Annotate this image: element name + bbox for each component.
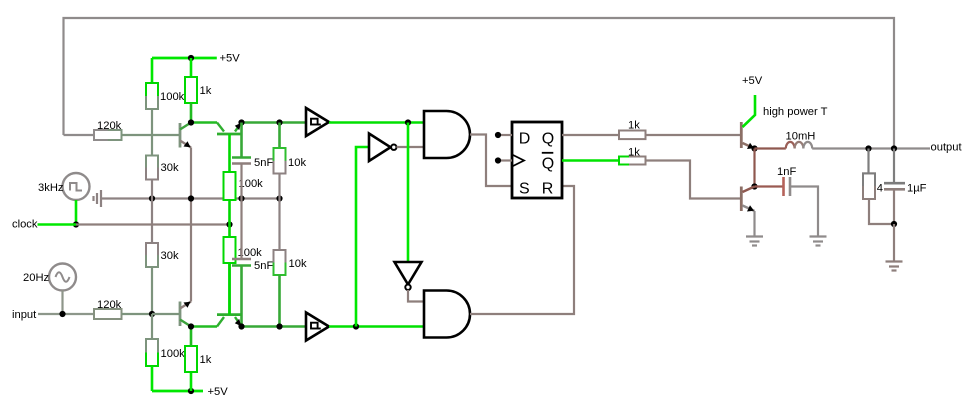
- svg-text:1k: 1k: [628, 120, 640, 132]
- AND gate U6: [424, 291, 470, 338]
- wire +5V bottom rail: [152, 390, 203, 393]
- resistor R7 100k left bottom: [146, 314, 185, 391]
- resistor R6 120k bottom: [94, 299, 152, 319]
- svg-text:5nF: 5nF: [254, 157, 273, 169]
- transistor Q2: [180, 302, 191, 327]
- resistor R12 10k lower: [274, 199, 307, 327]
- node 10k top: [276, 119, 282, 125]
- svg-text:1nF: 1nF: [777, 166, 796, 178]
- svg-text:10mH: 10mH: [786, 131, 816, 143]
- node clock: [73, 221, 79, 227]
- svg-text:20Hz: 20Hz: [23, 272, 50, 284]
- wire AND1 out to S: [470, 135, 512, 187]
- node ground row A: [149, 195, 155, 201]
- wire Q6 emitter to ground: [753, 211, 755, 236]
- node +5V top: [188, 55, 194, 61]
- node output A: [865, 145, 871, 151]
- inductor L1 10mH: [786, 131, 816, 149]
- wire collector row Q4 to schmitt2: [242, 325, 307, 328]
- node collector Q6: [751, 183, 757, 189]
- wire inverter1 out: [397, 146, 425, 148]
- ground G1: [94, 190, 102, 207]
- node ground row B: [188, 195, 194, 201]
- svg-text:1k: 1k: [628, 147, 640, 159]
- svg-text:10k: 10k: [289, 258, 307, 270]
- svg-text:R: R: [542, 180, 554, 197]
- svg-text:100k: 100k: [161, 348, 186, 360]
- wire Q out: [562, 134, 619, 136]
- svg-text:1k: 1k: [200, 354, 212, 366]
- wire clock source lead: [75, 200, 78, 225]
- wire Q5 emitter to coil: [755, 147, 786, 149]
- node 10k bottom: [276, 323, 282, 329]
- inverter U4: [395, 262, 422, 290]
- svg-text:D: D: [519, 131, 531, 148]
- wire 1nF to ground: [790, 187, 818, 237]
- node emitter Q3: [238, 119, 244, 125]
- AND gate U5: [424, 111, 470, 158]
- resistor R3 1k top: [185, 58, 212, 123]
- ground G3: [810, 237, 827, 246]
- schmitt buffer U1: [306, 108, 329, 136]
- wire emitter row to schmitt: [242, 121, 307, 124]
- resistor R9 100k mid upper: [224, 172, 264, 225]
- wire AND2 out to R: [470, 186, 574, 314]
- wire clock row: [76, 223, 230, 225]
- wire collector row Q2: [191, 325, 217, 328]
- node collector Q1: [188, 119, 194, 125]
- node ground row C: [238, 195, 244, 201]
- voltage source V1 3kHz clock: [38, 173, 90, 200]
- pin CLK stub: [498, 159, 512, 161]
- svg-text:30k: 30k: [161, 162, 179, 174]
- transistor Q5 high power top: [741, 95, 755, 149]
- resistor R13 1k Q: [619, 120, 740, 140]
- wire emitter rail: [190, 148, 192, 302]
- wire clock label stub: [38, 223, 77, 226]
- node +5V bottom: [188, 388, 194, 394]
- wire input source lead: [61, 291, 63, 315]
- node base Q1b: [149, 311, 155, 317]
- svg-text:5nF: 5nF: [254, 260, 273, 272]
- resistor R11 10k upper: [274, 123, 307, 199]
- wire inverter2 input riser: [407, 123, 410, 263]
- inverter U3: [369, 134, 396, 162]
- capacitor C3 1nF: [755, 166, 797, 196]
- wire Qbar out: [562, 159, 619, 162]
- ground row wire: [101, 197, 280, 199]
- ground G4: [886, 262, 903, 271]
- svg-text:10k: 10k: [288, 157, 306, 169]
- wire inverter1 input riser: [356, 147, 369, 327]
- capacitor C2 5nF lower: [232, 199, 273, 327]
- wire collector row Q1-Q2: [191, 121, 217, 124]
- node clock junction: [226, 221, 232, 227]
- wire base Q1b: [152, 313, 179, 315]
- svg-text:Q: Q: [542, 131, 554, 148]
- node collector Q2: [188, 323, 194, 329]
- transistor Q4 bottom middle: [217, 263, 242, 327]
- svg-text:1µF: 1µF: [907, 183, 927, 195]
- resistor R15 4 ohm: [863, 149, 894, 225]
- wire schmitt1 out: [329, 121, 424, 124]
- wire input row: [38, 313, 94, 315]
- wire inverter2 out: [408, 290, 424, 302]
- node schmitt1 out: [405, 119, 411, 125]
- transistor Q6 high power bottom: [741, 187, 754, 212]
- flip-flop U7: [512, 122, 562, 198]
- svg-text:1k: 1k: [200, 85, 212, 97]
- resistor R5 30k lower: [146, 199, 179, 315]
- svg-text:output: output: [931, 142, 963, 154]
- svg-text:120k: 120k: [97, 120, 122, 132]
- wire Q5 to Q6: [753, 149, 755, 187]
- wire output row: [812, 147, 930, 149]
- svg-text:+5V: +5V: [220, 53, 241, 65]
- resistor R8 1k bottom: [185, 327, 212, 392]
- node output B: [891, 145, 897, 151]
- svg-text:input: input: [12, 309, 37, 321]
- svg-text:3kHz: 3kHz: [38, 182, 64, 194]
- node input: [59, 311, 65, 317]
- svg-text:high power T: high power T: [763, 106, 828, 118]
- node pin CLK: [495, 157, 501, 163]
- resistor R1 120k top: [64, 120, 153, 140]
- wire feedback top loop: [64, 18, 895, 147]
- resistor R2 100k left top: [146, 58, 185, 135]
- svg-text:30k: 30k: [161, 250, 179, 262]
- wire schmitt2 out: [329, 325, 424, 328]
- wire base Q1: [152, 134, 179, 136]
- capacitor C1 5nF upper: [232, 123, 273, 199]
- node filter bottom: [891, 221, 897, 227]
- svg-text:S: S: [519, 180, 530, 197]
- schmitt buffer U2: [306, 313, 329, 341]
- svg-text:120k: 120k: [97, 299, 122, 311]
- svg-text:100k: 100k: [160, 91, 185, 103]
- resistor R10 100k mid lower: [224, 225, 263, 315]
- resistor R14 1k Qbar: [619, 147, 740, 199]
- node schmitt2 out: [353, 323, 359, 329]
- node emitter Q4: [238, 323, 244, 329]
- resistor R4 30k upper: [146, 135, 179, 199]
- svg-text:4: 4: [877, 183, 883, 195]
- voltage source V2 20Hz input: [23, 264, 76, 291]
- svg-text:+5V: +5V: [742, 75, 763, 87]
- ground G2: [746, 237, 763, 246]
- svg-text:Q: Q: [542, 156, 554, 173]
- transistor Q1: [180, 123, 191, 148]
- svg-text:+5V: +5V: [208, 386, 229, 398]
- pin D stub: [498, 134, 512, 136]
- wire +5V top rail: [152, 57, 217, 60]
- capacitor C4 1uF: [884, 149, 927, 225]
- node pin D: [495, 132, 501, 138]
- wire to ground G4: [893, 224, 895, 261]
- svg-text:clock: clock: [12, 219, 38, 231]
- node emitter Q5: [751, 145, 757, 151]
- transistor Q3 top middle: [217, 123, 242, 173]
- node ground row D: [276, 195, 282, 201]
